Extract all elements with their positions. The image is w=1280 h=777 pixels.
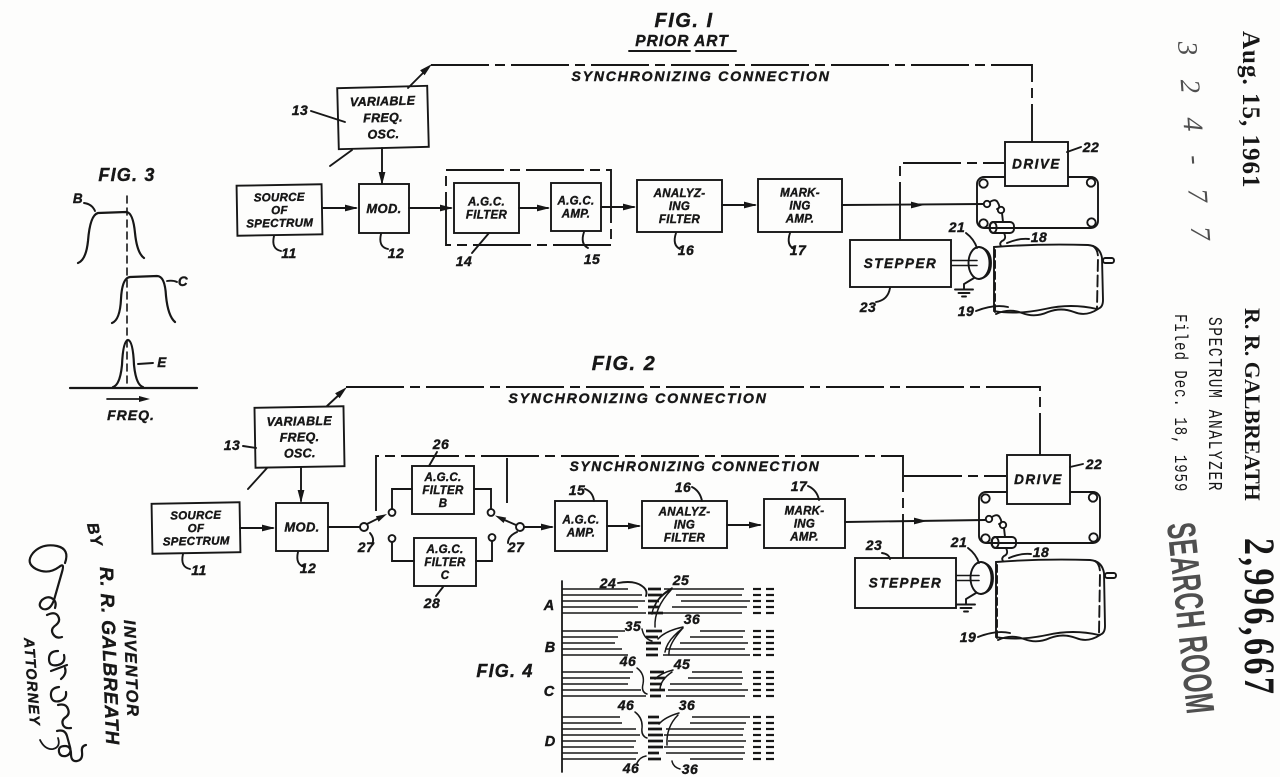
label 14	[472, 233, 489, 253]
svg-text:14: 14	[456, 253, 473, 269]
right trace	[688, 677, 743, 679]
paper left dashed edge (FIG2)	[996, 565, 998, 639]
heavy mark	[648, 588, 661, 591]
heavy mark	[646, 636, 658, 639]
svg-text:C: C	[544, 684, 555, 700]
right dashes	[753, 758, 761, 760]
svg-text:STEPPER: STEPPER	[869, 576, 943, 591]
right trace	[666, 752, 745, 754]
block: SOURCE OF SPECTRUM 11 (FIG2)	[152, 502, 241, 554]
wire: arrow from osc 13 to sync line	[408, 70, 426, 88]
FIG4 axis	[561, 581, 563, 772]
svg-text:13: 13	[292, 102, 309, 118]
switch contact B right	[488, 509, 495, 516]
pen motor cylinder 18 (FIG2)	[992, 537, 1016, 548]
svg-text:26: 26	[432, 436, 450, 452]
svg-text:DRIVE: DRIVE	[1012, 157, 1061, 172]
switch contact B left	[389, 509, 396, 516]
svg-text:35: 35	[625, 618, 642, 634]
svg-text:23: 23	[859, 299, 877, 315]
right trace	[672, 606, 747, 608]
wire: amp 15 to analyzing filter 16 (FIG2)	[607, 525, 639, 527]
right dashes	[753, 648, 761, 650]
wire: filter 14 to amp 15	[519, 207, 548, 209]
label 12 (FIG2)	[297, 552, 305, 567]
block: VARIABLE FREQ. OSC. 13 (FIG2)	[254, 406, 344, 468]
spectrum trace line y=631	[562, 630, 625, 632]
svg-text:R. R. GALBREATH: R. R. GALBREATH	[1240, 308, 1265, 501]
stepper shaft (FIG1)	[951, 260, 977, 262]
right trace	[700, 630, 745, 632]
svg-text:46: 46	[619, 653, 637, 669]
freq arrow	[107, 398, 144, 400]
svg-text:INVENTOR: INVENTOR	[120, 620, 141, 718]
svg-text:VARIABLE: VARIABLE	[266, 414, 332, 429]
block: A.G.C. AMP. 15 (FIG1)	[551, 183, 601, 231]
svg-text:C: C	[178, 274, 188, 289]
heavy mark	[648, 716, 659, 719]
right trace	[666, 728, 744, 730]
label 27 right	[508, 532, 517, 543]
svg-text:ANALYZ-: ANALYZ-	[653, 188, 706, 200]
svg-text:SPECTRUM: SPECTRUM	[246, 217, 313, 230]
svg-text:15: 15	[584, 251, 601, 267]
svg-text:FILTER: FILTER	[422, 485, 464, 497]
svg-text:A.G.C.: A.G.C.	[426, 544, 464, 556]
block: STEPPER 23 (FIG1)	[850, 240, 951, 287]
svg-text:SYNCHRONIZING CONNECTION: SYNCHRONIZING CONNECTION	[570, 459, 821, 474]
wire from cylinder 18 (FIG1)	[1000, 233, 1005, 248]
right trace	[668, 689, 748, 691]
label 22 (FIG2)	[1070, 464, 1083, 467]
svg-text:FILTER: FILTER	[466, 210, 508, 222]
right dashes	[753, 606, 761, 608]
wire from filter B output	[474, 489, 491, 509]
svg-text:17: 17	[791, 478, 808, 494]
wire: inner sync riser to drive (dash-dot) FIG2	[904, 475, 1006, 477]
svg-text:Aug. 15, 1961: Aug. 15, 1961	[1237, 31, 1264, 188]
heavy mark	[648, 606, 659, 609]
frequency axis	[70, 387, 197, 389]
svg-text:SEARCH ROOM: SEARCH ROOM	[1157, 520, 1222, 716]
svg-text:36: 36	[682, 761, 699, 777]
right dashes	[753, 671, 761, 673]
curve C	[112, 276, 175, 323]
svg-text:11: 11	[281, 245, 297, 261]
svg-text:21: 21	[948, 219, 966, 235]
svg-text:FREQ.: FREQ.	[363, 110, 403, 125]
wire: stepper riser to drive (dash-dot) FIG1	[900, 163, 1004, 240]
svg-text:21: 21	[950, 534, 968, 550]
paper left dashed edge (FIG1)	[994, 250, 996, 313]
switch 27 left pivot	[360, 523, 368, 531]
heavy mark	[650, 671, 664, 674]
svg-text:27: 27	[357, 539, 375, 555]
right trace	[692, 716, 750, 718]
block: A.G.C. AMP. 15 (FIG2)	[555, 501, 607, 551]
svg-text:MOD.: MOD.	[366, 201, 401, 216]
attorney flourish	[40, 738, 59, 749]
block: SOURCE OF SPECTRUM 11 (FIG1)	[237, 184, 323, 235]
svg-text:FILTER: FILTER	[659, 214, 701, 226]
heavy mark	[650, 683, 662, 686]
signature John K. Mullarney (script)	[30, 545, 86, 761]
spectrum trace line y=753	[562, 752, 638, 754]
right dashes	[753, 722, 761, 724]
svg-text:AMP.: AMP.	[785, 213, 814, 225]
right trace	[690, 636, 743, 638]
right trace	[670, 683, 742, 685]
label 11 (FIG2)	[182, 554, 190, 569]
spectrum trace line y=672	[562, 671, 633, 673]
right trace	[649, 612, 742, 614]
block: ANALYZING FILTER 16 (FIG1)	[637, 180, 722, 232]
right dashes	[753, 740, 761, 742]
svg-text:MARK-: MARK-	[780, 188, 820, 200]
paper right fold line (FIG2)	[1095, 561, 1100, 634]
drum 21 (FIG1)	[979, 247, 990, 279]
spectrum trace line y=613	[562, 612, 646, 614]
right trace	[690, 758, 743, 760]
svg-text:FILTER: FILTER	[424, 557, 466, 569]
switch 27 left arm	[367, 516, 383, 524]
wire: synchronizing connection FIG1 (dash-dot)	[431, 65, 1032, 142]
wire: arrow from osc 13 to outer sync line (FIG2)	[327, 393, 341, 406]
curve B (filter passband)	[78, 212, 144, 263]
block: DRIVE 22 (FIG1)	[1005, 142, 1068, 186]
spectrum trace line y=655	[562, 654, 628, 656]
svg-text:Filed Dec. 18, 1959: Filed Dec. 18, 1959	[1169, 314, 1190, 492]
right dashes	[753, 594, 761, 596]
heavy mark	[646, 642, 661, 645]
wire: marking amp 17 to recorder pen (FIG2)	[845, 520, 985, 522]
svg-text:A.G.C.: A.G.C.	[467, 197, 505, 209]
svg-text:28: 28	[423, 595, 441, 611]
spectrum trace line y=741	[562, 740, 636, 742]
switch contact C left	[389, 535, 396, 542]
label 15	[583, 232, 588, 248]
svg-text:FREQ.: FREQ.	[107, 407, 155, 423]
svg-text:SOURCE: SOURCE	[170, 510, 221, 523]
wire: osc 13 to mod 12 (FIG1)	[381, 148, 383, 183]
right dashes	[753, 612, 761, 614]
heavy mark	[648, 600, 659, 603]
spectrum trace line y=643	[562, 642, 615, 644]
paper web 19 (FIG2)	[996, 560, 1105, 639]
svg-text:A: A	[543, 598, 554, 614]
right trace	[690, 722, 746, 724]
dashed center-frequency line	[126, 196, 128, 387]
label 21 (FIG2)	[968, 548, 979, 563]
svg-text:E: E	[157, 355, 167, 370]
drum 21 (FIG2)	[981, 562, 992, 594]
spectrum trace line y=690	[562, 689, 641, 691]
spectrum trace line y=607	[562, 606, 638, 608]
right dashes	[753, 716, 761, 718]
right trace	[668, 740, 746, 742]
block: MARKING AMP. 17 (FIG1)	[758, 179, 842, 232]
svg-text:OF: OF	[271, 205, 288, 217]
wire: marking amp 17 to recorder pen	[842, 204, 983, 205]
dash-dot enclosure around 14/15	[446, 170, 611, 245]
label 12	[380, 234, 388, 249]
right trace	[680, 642, 748, 644]
svg-text:ING: ING	[794, 519, 815, 531]
svg-text:DRIVE: DRIVE	[1014, 472, 1063, 487]
right trace	[663, 654, 750, 656]
stray leader below osc box	[330, 150, 352, 166]
right dashes	[753, 600, 761, 602]
block: MOD. 12 (FIG2)	[276, 503, 328, 551]
svg-text:FIG. I: FIG. I	[655, 10, 714, 32]
paper spindle pin (FIG1)	[1103, 258, 1114, 263]
svg-text:12: 12	[300, 560, 317, 576]
wire: source 11 to mod 12	[322, 207, 356, 209]
recorder chart frame (FIG1)	[977, 177, 1098, 228]
heavy mark	[650, 689, 665, 692]
switch contact C right	[489, 534, 496, 541]
spectrum trace line y=735	[562, 734, 640, 736]
switch 27 right pivot	[516, 523, 524, 531]
svg-text:FIG. 3: FIG. 3	[98, 165, 155, 185]
wire: mod 12 to agc filter 14	[409, 207, 451, 209]
spectrum trace line y=717	[562, 716, 620, 718]
label 21 (FIG1)	[966, 233, 977, 248]
wire: filter 16 to marking amp 17	[722, 204, 755, 206]
svg-text:A.G.C.: A.G.C.	[424, 472, 462, 484]
curve E (narrow response)	[113, 340, 143, 387]
heavy mark	[646, 648, 658, 651]
heavy mark	[646, 654, 658, 657]
svg-text:OSC.: OSC.	[367, 127, 399, 142]
right trace	[666, 695, 745, 697]
recorder pen linkage (FIG2)	[986, 516, 992, 522]
recorder pen linkage (FIG1)	[984, 201, 990, 207]
wire from filter C output	[476, 541, 492, 561]
wire: switch 27 to agc amp 15 (FIG2)	[524, 526, 552, 528]
heavy mark	[648, 734, 663, 737]
block: A.G.C. FILTER B 26	[412, 466, 474, 514]
spectrum trace line y=589	[562, 588, 628, 590]
heavy mark	[648, 746, 663, 749]
svg-text:12: 12	[388, 245, 405, 261]
right dashes	[753, 734, 761, 736]
spectrum trace line y=759	[562, 758, 636, 760]
heavy mark	[648, 758, 661, 761]
dash-dot enclosure + inner sync connection line (FIG2)	[376, 456, 903, 558]
block: DRIVE 22 (FIG2)	[1007, 455, 1070, 504]
svg-text:FIG. 2: FIG. 2	[592, 353, 657, 375]
svg-text:R. R. GALBREATH: R. R. GALBREATH	[95, 566, 122, 746]
wire: osc 13 to mod 12 (FIG2)	[300, 467, 302, 501]
svg-text:25: 25	[672, 572, 690, 588]
svg-text:16: 16	[678, 242, 695, 258]
right dashes	[753, 677, 761, 679]
right trace	[676, 594, 742, 596]
stepper shaft (FIG2)	[953, 575, 979, 577]
spectrum trace line y=595	[562, 594, 642, 596]
svg-text:324-77: 324-77	[1171, 39, 1218, 265]
wire: outer synchronizing connection FIG2 (dash-dot)	[346, 387, 1040, 455]
spectrum trace line y=729	[562, 728, 636, 730]
label 18 (FIG1)	[1007, 239, 1029, 243]
heavy mark	[650, 695, 661, 698]
heavy mark	[648, 728, 662, 731]
svg-text:B: B	[545, 640, 555, 656]
svg-text:45: 45	[673, 656, 691, 672]
svg-text:18: 18	[1033, 544, 1050, 560]
spectrum trace line y=637	[562, 636, 618, 638]
stray leader below osc box (FIG2)	[248, 468, 267, 489]
right dashes	[753, 752, 761, 754]
spectrum trace line y=649	[562, 648, 622, 650]
right trace	[664, 588, 744, 590]
svg-text:C: C	[441, 570, 450, 582]
recorder chart frame (FIG2)	[979, 492, 1100, 543]
pen motor cylinder 18 (FIG1)	[990, 222, 1014, 233]
heavy mark	[650, 677, 665, 680]
wire from cylinder 18 (FIG2)	[1002, 548, 1007, 563]
right dashes	[753, 588, 761, 590]
svg-text:18: 18	[1031, 229, 1048, 245]
block: VARIABLE FREQ. OSC. 13 (FIG1)	[337, 86, 429, 149]
spectrum trace line y=723	[562, 722, 622, 724]
svg-text:STEPPER: STEPPER	[864, 256, 938, 271]
heavy mark	[648, 594, 662, 597]
svg-text:SYNCHRONIZING CONNECTION: SYNCHRONIZING CONNECTION	[508, 391, 767, 407]
svg-text:A.G.C.: A.G.C.	[557, 196, 595, 208]
svg-text:19: 19	[958, 303, 975, 319]
svg-text:SPECTRUM: SPECTRUM	[163, 535, 230, 548]
paper spindle pin (FIG2)	[1105, 573, 1116, 578]
label 16	[675, 233, 680, 249]
switch 27 right arm	[500, 518, 516, 525]
block: MARKING AMP. 17 (FIG2)	[764, 499, 845, 548]
wire: mod 12 to switch 27	[328, 526, 360, 528]
label 19 (FIG2)	[978, 632, 1010, 637]
right trace	[664, 734, 743, 736]
paper right fold line (FIG1)	[1093, 246, 1098, 308]
paper web 19 (FIG1)	[994, 245, 1103, 313]
right dashes	[753, 642, 761, 644]
svg-text:PRIOR ART: PRIOR ART	[635, 33, 729, 50]
label 23	[876, 288, 890, 302]
heavy mark	[648, 722, 660, 725]
svg-text:13: 13	[224, 437, 241, 453]
paper wavy bottom (FIG1)	[996, 309, 1098, 315]
svg-text:22: 22	[1082, 139, 1100, 155]
block: A.G.C. FILTER 14	[454, 183, 519, 233]
label 22	[1067, 147, 1081, 152]
spectrum trace line y=601	[562, 600, 645, 602]
wire: filter 16 to marking amp 17 (FIG2)	[727, 524, 760, 526]
svg-text:SYNCHRONIZING CONNECTION: SYNCHRONIZING CONNECTION	[571, 69, 830, 85]
right dashes	[753, 654, 761, 656]
spectrum trace line y=696	[562, 695, 646, 697]
label 11	[273, 236, 281, 251]
svg-text:AMP.: AMP.	[566, 528, 595, 540]
block: STEPPER 23 (FIG2)	[855, 558, 956, 608]
svg-text:D: D	[545, 734, 556, 750]
svg-text:15: 15	[569, 482, 586, 498]
label 27 left	[370, 533, 373, 544]
svg-text:36: 36	[684, 611, 701, 627]
svg-text:B: B	[439, 498, 448, 510]
svg-text:ING: ING	[674, 520, 695, 532]
right dashes	[753, 630, 761, 632]
svg-text:ING: ING	[789, 201, 810, 213]
heavy mark	[648, 740, 663, 743]
svg-text:FIG. 4: FIG. 4	[476, 661, 533, 681]
svg-text:17: 17	[790, 242, 807, 258]
svg-text:46: 46	[617, 697, 635, 713]
svg-text:SPECTRUM ANALYZER: SPECTRUM ANALYZER	[1202, 317, 1224, 492]
svg-text:VARIABLE: VARIABLE	[350, 94, 416, 110]
svg-text:FILTER: FILTER	[664, 532, 706, 544]
label 18 (FIG2)	[1009, 554, 1031, 558]
block: MOD. 12 (FIG1)	[359, 184, 409, 233]
svg-text:OSC.: OSC.	[284, 446, 316, 461]
svg-text:BY: BY	[83, 521, 105, 549]
right dashes	[753, 695, 761, 697]
right dashes	[753, 728, 761, 730]
svg-text:A.G.C.: A.G.C.	[562, 515, 600, 527]
right dashes	[753, 683, 761, 685]
block: ANALYZING FILTER 16 (FIG2)	[642, 501, 727, 548]
spectrum trace line y=747	[562, 746, 634, 748]
heavy mark	[646, 630, 662, 633]
svg-text:22: 22	[1085, 456, 1103, 472]
label 19 (FIG1)	[976, 306, 1008, 311]
svg-text:OF: OF	[188, 523, 205, 535]
right trace	[665, 648, 745, 650]
svg-text:16: 16	[675, 479, 692, 495]
svg-text:27: 27	[507, 539, 525, 555]
wire to filter B input	[392, 489, 412, 509]
svg-text:ANALYZ-: ANALYZ-	[658, 507, 711, 519]
ground symbol (FIG2)	[966, 593, 976, 604]
spectrum trace line y=684	[562, 683, 628, 685]
spectrum trace line y=678	[562, 677, 630, 679]
svg-text:AMP.: AMP.	[789, 531, 818, 543]
svg-text:B: B	[73, 191, 83, 206]
svg-text:36: 36	[679, 697, 696, 713]
svg-text:11: 11	[191, 562, 207, 578]
label 17	[789, 233, 794, 249]
right dashes	[753, 689, 761, 691]
svg-text:19: 19	[960, 629, 977, 645]
right trace	[664, 746, 744, 748]
ground symbol (FIG1)	[964, 278, 974, 289]
wire: source 11 to mod 12 (FIG2)	[240, 527, 273, 529]
paper wavy bottom (FIG2)	[998, 635, 1100, 641]
right dashes	[753, 636, 761, 638]
heavy mark	[648, 752, 659, 755]
right trace	[692, 671, 742, 673]
right dashes	[753, 746, 761, 748]
svg-text:23: 23	[865, 537, 883, 553]
svg-text:SOURCE: SOURCE	[254, 192, 305, 205]
block: A.G.C. FILTER C 28	[414, 538, 476, 586]
svg-text:MOD.: MOD.	[284, 520, 319, 535]
svg-text:FREQ.: FREQ.	[280, 430, 320, 445]
right trace	[681, 600, 750, 602]
svg-text:24: 24	[599, 575, 617, 591]
svg-text:AMP.: AMP.	[561, 209, 590, 221]
svg-text:ATTORNEY: ATTORNEY	[20, 636, 42, 727]
wire to filter C input	[392, 542, 414, 561]
svg-text:ING: ING	[669, 201, 690, 213]
